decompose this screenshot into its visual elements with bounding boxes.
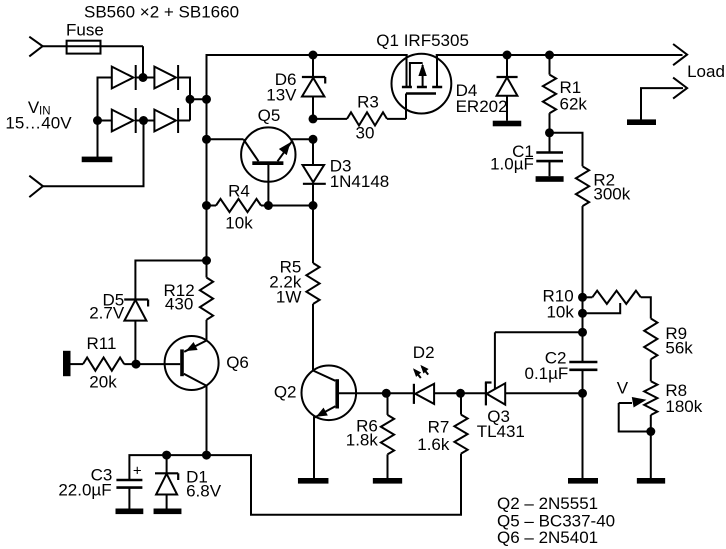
node rail/Q6 collector: [202, 451, 211, 460]
label VIN: [5, 98, 72, 133]
label Q1 IRF5305: [376, 31, 469, 50]
label SB560 x2 + SB1660: [84, 3, 239, 22]
svg-text:1.6k: 1.6k: [417, 435, 450, 454]
wire D2 to R7: [434, 392, 460, 394]
svg-text:Q5: Q5: [258, 106, 281, 125]
svg-text:300k: 300k: [593, 184, 630, 203]
svg-text:ER202: ER202: [456, 97, 508, 116]
label D1 6.8V: [186, 468, 222, 501]
svg-text:15…40V: 15…40V: [5, 114, 72, 133]
resistor R5: [306, 263, 319, 304]
output terminal Load-: [673, 78, 687, 99]
wire bridge bottom right: [178, 120, 190, 122]
label Fuse: [66, 21, 104, 40]
led D2: [413, 365, 434, 404]
node riser/D5 branch: [202, 256, 211, 265]
label D6 13V: [266, 70, 297, 105]
wire C3-D1 rail: [129, 454, 461, 515]
wire Load- to ground: [641, 88, 683, 120]
svg-text:6.8V: 6.8V: [186, 482, 222, 501]
node fuse/bridge top: [139, 73, 148, 82]
ground (feedback): [568, 478, 598, 484]
label D2: [413, 343, 435, 362]
label Q6: [226, 353, 249, 372]
resistor R4: [216, 199, 261, 212]
wire R3 left: [313, 118, 347, 120]
wire R1 bottom: [549, 113, 551, 133]
wire R6 bottom: [387, 454, 389, 478]
resistor R11: [83, 358, 124, 371]
wire riser top: [207, 55, 683, 278]
ground (Load): [627, 119, 656, 125]
svg-text:Q6: Q6: [226, 353, 249, 372]
resistor R3: [347, 112, 387, 125]
label C3 22.0uF: [58, 466, 112, 500]
wire R6 to D2: [386, 392, 414, 394]
label C2 0.1uF: [524, 349, 568, 384]
zener D6: [302, 55, 325, 119]
node riser/R4: [202, 201, 211, 210]
zener D5: [124, 300, 148, 365]
resistor R2: [576, 166, 589, 206]
diode bridge D-a: [112, 65, 136, 90]
transistor Q5: [241, 127, 295, 205]
node Q2 base/R6: [382, 389, 391, 398]
node riser/bridge: [202, 95, 211, 104]
resistor R8: [644, 381, 657, 415]
wire R12 to Q6 emitter: [206, 320, 208, 342]
node rail/D4: [503, 51, 512, 60]
svg-text:Load: Load: [687, 62, 725, 81]
wire R11 to Q6 base: [124, 363, 180, 365]
svg-text:Q2: Q2: [274, 383, 297, 402]
svg-text:Q2 – 2N5551: Q2 – 2N5551: [497, 494, 598, 513]
wire feedback column: [582, 297, 584, 478]
node Q3 anode: [578, 389, 587, 398]
node bridge output: [186, 95, 195, 104]
svg-text:56k: 56k: [665, 339, 693, 358]
svg-text:R3: R3: [357, 92, 379, 111]
svg-text:R11: R11: [87, 334, 117, 353]
fuse: [67, 41, 101, 54]
label Q5: [258, 106, 281, 125]
svg-text:430: 430: [165, 294, 193, 313]
svg-text:R7: R7: [428, 417, 450, 436]
node bridge bottom mid: [139, 116, 148, 125]
svg-text:0.1µF: 0.1µF: [524, 364, 568, 383]
wire R3 right to Q1 gate: [387, 118, 406, 120]
resistor R12: [200, 278, 213, 320]
transistor Q6: [165, 336, 219, 390]
ground (R6): [373, 478, 402, 484]
node R10 wiper: [578, 309, 587, 318]
svg-text:R4: R4: [228, 182, 250, 201]
diode D3: [303, 139, 326, 205]
label D5 2.7V: [89, 291, 125, 323]
wire VIN+ to bridge: [43, 45, 143, 47]
transistor Q2: [302, 366, 357, 421]
wire R11 left: [71, 363, 84, 365]
label R2 300k: [593, 171, 630, 204]
ground (D4): [493, 121, 522, 127]
node REF: [578, 328, 587, 337]
svg-text:+: +: [133, 463, 142, 480]
svg-text:1W: 1W: [276, 288, 302, 307]
label Load: [687, 62, 725, 81]
wire R4 right: [261, 205, 313, 207]
diode D4: [497, 55, 518, 121]
svg-text:2.7V: 2.7V: [89, 304, 125, 323]
node R4/Q5 base: [264, 201, 273, 210]
label D4 ER202: [456, 81, 508, 116]
node Q5 emitter/D3: [309, 135, 318, 144]
label R7 1.6k: [417, 417, 450, 454]
node D6/R3: [309, 114, 318, 123]
wire Q6 collector down: [206, 386, 208, 456]
wire R8 bottom: [650, 415, 652, 478]
node R10 top: [578, 293, 587, 302]
capacitor C1: [536, 133, 563, 176]
label D3 1N4148: [330, 157, 390, 191]
wire bridge top-left: [98, 78, 113, 121]
wire R7 top: [460, 393, 462, 414]
label R9 56k: [665, 324, 693, 358]
label R5 2.2k 1W: [269, 257, 302, 306]
resistor R1: [543, 75, 556, 114]
node rail/R1: [545, 51, 554, 60]
label C1 1.0uF: [490, 142, 534, 174]
wire R2 bottom: [582, 206, 584, 297]
wire R10 wiper: [583, 303, 621, 313]
svg-text:10k: 10k: [225, 214, 253, 233]
capacitor C2: [569, 362, 597, 370]
node riser/Q5 collector: [202, 135, 211, 144]
wire bridge top mid: [136, 77, 155, 79]
node rail/D1: [162, 451, 171, 460]
output terminal Load+: [673, 44, 687, 65]
diode bridge D-b: [154, 65, 178, 90]
node R4/D3: [309, 201, 318, 210]
svg-text:Q1 IRF5305: Q1 IRF5305: [376, 31, 469, 50]
diode bridge D-c: [112, 108, 136, 133]
wire bridge top right: [178, 78, 190, 121]
svg-text:TL431: TL431: [477, 422, 525, 441]
input terminal + (VIN+): [29, 37, 42, 57]
zener D1: [155, 455, 178, 508]
wire bridge bottom mid: [136, 120, 155, 122]
wire Q3 ref to node: [495, 331, 583, 333]
svg-text:62k: 62k: [560, 95, 588, 114]
label R8 180k: [665, 381, 702, 416]
label R10 10k: [543, 287, 575, 322]
node R1/C1/R2: [545, 128, 554, 137]
note transistor types: [497, 494, 615, 547]
wire Q2 base: [339, 392, 386, 394]
svg-text:1N4148: 1N4148: [330, 172, 390, 191]
svg-text:Q6 – 2N5401: Q6 – 2N5401: [497, 528, 598, 547]
label R3 30: [356, 92, 379, 142]
node D5/R11/Q6 base: [132, 360, 141, 369]
ground (C1): [536, 176, 564, 182]
svg-text:1.0µF: 1.0µF: [490, 155, 534, 174]
terminal bar (R11 input): [63, 351, 71, 376]
wire bridge bottom-left: [98, 120, 113, 122]
diode bridge D-d: [154, 108, 178, 133]
wire R9 to R8: [650, 359, 652, 381]
label R6 1.8k: [346, 417, 379, 450]
wire R2 top: [550, 133, 583, 167]
wire R5 to Q2 collector: [312, 304, 314, 371]
capacitor C3: [116, 463, 142, 509]
label R4 10k: [225, 182, 253, 233]
resistor R7: [454, 415, 467, 454]
wire bridge output to riser: [190, 98, 207, 100]
shunt reference Q3 TL431: [485, 332, 505, 405]
node rail/D6: [309, 51, 318, 60]
ground (R8): [637, 478, 665, 484]
svg-text:10k: 10k: [546, 303, 574, 322]
wire Q3 anode to node: [505, 392, 582, 394]
svg-text:180k: 180k: [665, 397, 702, 416]
wire D3 to R5: [312, 206, 314, 264]
wire Q2 emitter down: [313, 417, 315, 479]
wire R4 left: [207, 205, 217, 207]
resistor R9: [644, 319, 657, 360]
wire bridge ground drop: [97, 121, 99, 158]
svg-text:30: 30: [356, 124, 375, 143]
label R1 62k: [560, 78, 588, 114]
label R11 20k: [87, 334, 118, 392]
wire R6 top: [387, 393, 389, 415]
wire R7 to Q3: [461, 392, 486, 394]
node D2/R7: [456, 389, 465, 398]
wire R10 right: [583, 297, 651, 318]
svg-text:D2: D2: [413, 343, 435, 362]
resistor R6: [381, 415, 394, 455]
wire R1 top: [549, 55, 551, 75]
wire fuse drop: [142, 46, 144, 77]
wire VIN- to bridge: [43, 121, 144, 187]
node bridge left: [93, 116, 102, 125]
svg-text:Fuse: Fuse: [66, 21, 104, 40]
label R12 430: [164, 281, 195, 314]
input terminal - (VIN-): [29, 176, 43, 197]
resistor R10: [592, 291, 641, 304]
ground (Q2 emitter): [298, 478, 329, 484]
svg-text:13V: 13V: [266, 86, 297, 105]
svg-text:22.0µF: 22.0µF: [58, 481, 111, 500]
wire riser to D5: [135, 261, 206, 300]
svg-text:20k: 20k: [89, 373, 117, 392]
svg-text:V: V: [617, 379, 629, 398]
wire Q5 collector: [207, 138, 244, 140]
transistor Q1 IRF5305: [392, 50, 452, 119]
pot wiper R8: [619, 397, 651, 431]
svg-text:1.8k: 1.8k: [346, 431, 379, 450]
label V: [617, 379, 629, 398]
svg-text:SB560 ×2 + SB1660: SB560 ×2 + SB1660: [84, 3, 239, 22]
ground (D1): [154, 509, 182, 515]
label Q2: [274, 383, 297, 402]
wire Q5 emitter: [291, 138, 313, 140]
ground (bridge): [82, 157, 113, 163]
label Q3 TL431: [477, 407, 525, 441]
ground (C3): [116, 509, 144, 515]
node R8 wiper/bottom: [646, 427, 655, 436]
